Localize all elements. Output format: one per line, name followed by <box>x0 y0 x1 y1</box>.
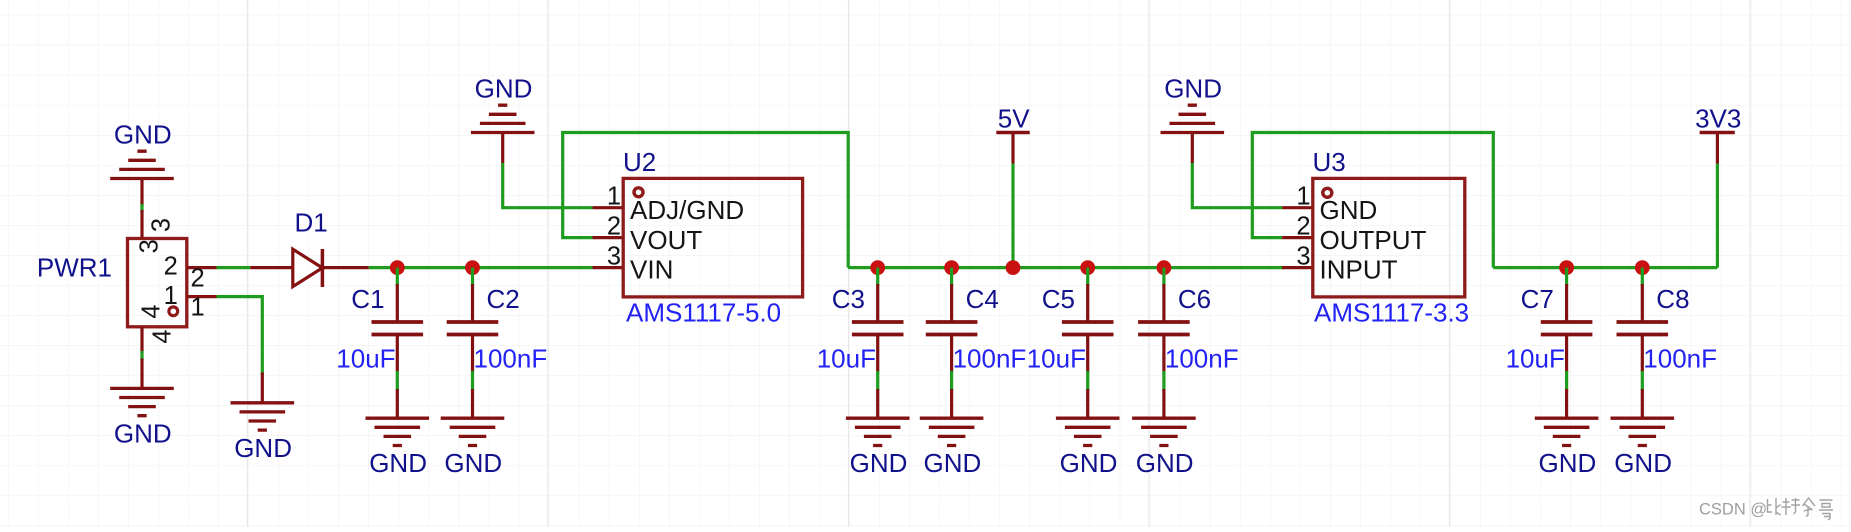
svg-text:1: 1 <box>1296 183 1310 211</box>
svg-text:3: 3 <box>1296 242 1310 270</box>
svg-text:2: 2 <box>1296 212 1310 240</box>
svg-text:GND: GND <box>924 448 982 478</box>
svg-text:10uF: 10uF <box>1506 344 1565 374</box>
pin-1 marker circle of U2 <box>634 188 643 197</box>
ground GND net flag above PWR1 <box>110 120 174 179</box>
capacitor C1 <box>396 284 399 322</box>
svg-text:C1: C1 <box>351 284 384 314</box>
svg-text:3: 3 <box>148 218 176 232</box>
wire C3 top pin to rail <box>876 268 879 286</box>
wire C7 bottom pin to ground <box>1565 371 1568 391</box>
wire PWR1 pin 1 to ground <box>217 297 263 375</box>
wire C2 top pin to rail <box>471 268 474 286</box>
junction node at C3 <box>870 260 885 275</box>
svg-text:2: 2 <box>607 212 621 240</box>
svg-text:GND: GND <box>475 74 533 104</box>
svg-text:100nF: 100nF <box>1165 344 1239 374</box>
svg-text:3: 3 <box>607 242 621 270</box>
wire PWR1 pin 4 to ground <box>140 351 143 360</box>
svg-text:GND: GND <box>1320 195 1378 225</box>
regulator U2 pin 3 <box>593 266 624 269</box>
svg-text:4: 4 <box>138 304 166 318</box>
ground below C4 <box>950 389 953 418</box>
svg-text:1: 1 <box>191 294 205 322</box>
junction node at C5 <box>1080 260 1095 275</box>
svg-text:GND: GND <box>850 448 908 478</box>
regulator U3 pin 3 <box>1282 266 1313 269</box>
svg-text:OUTPUT: OUTPUT <box>1320 225 1427 255</box>
wire 3V3 rail <box>1493 266 1717 269</box>
svg-text:D1: D1 <box>295 208 328 238</box>
wire GND to PWR1 pin 3 <box>140 179 143 207</box>
capacitor C4 <box>950 284 953 322</box>
wire 5V rail <box>848 266 1284 269</box>
wire PWR1 pin 2 to D1 anode <box>217 266 251 269</box>
svg-text:1: 1 <box>607 183 621 211</box>
ground below C5 <box>1086 389 1089 418</box>
svg-text:AMS1117-3.3: AMS1117-3.3 <box>1314 298 1469 328</box>
svg-text:C6: C6 <box>1178 284 1211 314</box>
ground below C3 <box>876 389 879 418</box>
ground GND net flag above U2 <box>471 74 535 133</box>
connector PWR1 pin 2 <box>187 266 217 269</box>
svg-text:GND: GND <box>1164 74 1222 104</box>
wire GND to U2 pin 1 <box>501 133 504 164</box>
wire D1 cathode to U2 VIN <box>369 266 593 269</box>
svg-text:GND: GND <box>114 418 172 448</box>
svg-text:U3: U3 <box>1313 147 1346 177</box>
svg-text:1: 1 <box>164 282 178 310</box>
junction node at C6 <box>1157 260 1172 275</box>
ground below C6 <box>1162 389 1165 418</box>
connector PWR1 pin 1 <box>187 295 217 298</box>
capacitor C7 <box>1565 284 1568 322</box>
regulator U3 pin 2 <box>1282 236 1313 239</box>
junction node at C1 <box>390 260 405 275</box>
wire C8 bottom pin to ground <box>1641 371 1644 391</box>
svg-text:10uF: 10uF <box>1027 344 1086 374</box>
capacitor C2 <box>471 284 474 322</box>
svg-text:5V: 5V <box>998 104 1030 134</box>
ground at PWR1 pin 1 <box>261 373 264 403</box>
svg-text:GND: GND <box>369 448 427 478</box>
wire C1 bottom pin to ground <box>396 371 399 391</box>
power net flag 5V <box>996 104 1030 164</box>
capacitor C3 <box>876 284 879 322</box>
watermark CSDN @比特冬哥 <box>1699 498 1833 520</box>
capacitor C8 <box>1641 284 1644 322</box>
junction node at 5V tap <box>1006 260 1021 275</box>
wire C4 top pin to rail <box>950 268 953 286</box>
svg-text:GND: GND <box>1060 448 1118 478</box>
svg-text:GND: GND <box>234 433 292 463</box>
wire U3 OUTPUT pin 2 up to 3V3 rail <box>1252 133 1493 268</box>
svg-text:C2: C2 <box>487 284 520 314</box>
wire rail up to 3V3 flag <box>1716 164 1719 268</box>
svg-text:4: 4 <box>149 329 177 343</box>
svg-text:100nF: 100nF <box>474 344 548 374</box>
svg-text:VIN: VIN <box>630 255 673 285</box>
svg-text:U2: U2 <box>623 147 656 177</box>
svg-text:100nF: 100nF <box>1643 344 1717 374</box>
wire C7 top pin to rail <box>1565 268 1568 286</box>
svg-text:ADJ/GND: ADJ/GND <box>630 195 744 225</box>
svg-text:C8: C8 <box>1656 284 1689 314</box>
wire C1 top pin to rail <box>396 268 399 286</box>
capacitor C5 <box>1086 284 1089 322</box>
svg-text:C4: C4 <box>966 284 999 314</box>
wire GND to U3 pin 1 <box>1191 133 1194 164</box>
svg-text:VOUT: VOUT <box>630 225 702 255</box>
connector PWR1 pin 3 <box>140 210 143 239</box>
svg-text:INPUT: INPUT <box>1320 255 1398 285</box>
pin-1 marker circle of PWR1 <box>169 307 178 316</box>
pin-1 marker circle of U3 <box>1323 188 1332 197</box>
svg-text:3: 3 <box>136 239 164 253</box>
capacitor C6 <box>1162 284 1165 322</box>
power net flag 3V3 <box>1695 104 1741 164</box>
svg-text:CSDN @: CSDN @ <box>1699 501 1767 519</box>
svg-text:AMS1117-5.0: AMS1117-5.0 <box>626 298 781 328</box>
connector PWR1 body <box>128 239 187 327</box>
svg-text:GND: GND <box>114 120 172 150</box>
svg-text:GND: GND <box>1539 448 1597 478</box>
junction node at C8 <box>1635 260 1650 275</box>
diode D1 <box>250 249 368 287</box>
svg-text:3V3: 3V3 <box>1695 104 1741 134</box>
svg-text:10uF: 10uF <box>817 344 876 374</box>
wire C4 bottom pin to ground <box>950 371 953 391</box>
junction node at C7 <box>1559 260 1574 275</box>
wire 5V flag to rail <box>1011 164 1014 268</box>
svg-text:C3: C3 <box>832 284 865 314</box>
svg-text:2: 2 <box>164 253 178 281</box>
wire C2 bottom pin to ground <box>471 371 474 391</box>
ground at PWR1 pin 4 <box>140 359 143 389</box>
wire C6 bottom pin to ground <box>1162 371 1165 391</box>
regulator U2 pin 1 <box>593 206 624 209</box>
ground below C7 <box>1565 389 1568 418</box>
svg-text:GND: GND <box>1136 448 1194 478</box>
svg-text:PWR1: PWR1 <box>37 253 112 283</box>
ground below C2 <box>471 389 474 418</box>
svg-text:C5: C5 <box>1042 284 1075 314</box>
junction node at C4 <box>944 260 959 275</box>
wire C6 top pin to rail <box>1162 268 1165 286</box>
svg-text:GND: GND <box>444 448 502 478</box>
ground below C1 <box>396 389 399 418</box>
connector PWR1 pin 4 <box>140 327 143 353</box>
wire C5 bottom pin to ground <box>1086 371 1089 391</box>
regulator U2 pin 2 <box>593 236 624 239</box>
wire C3 bottom pin to ground <box>876 371 879 391</box>
svg-text:C7: C7 <box>1521 284 1554 314</box>
ground GND net flag above U3 <box>1161 74 1225 133</box>
svg-text:GND: GND <box>1614 448 1672 478</box>
regulator U2 body <box>623 178 802 297</box>
svg-text:2: 2 <box>191 265 205 293</box>
ground below C8 <box>1641 389 1644 418</box>
wire U2 VOUT pin 2 up to 5V rail <box>563 133 849 268</box>
svg-text:100nF: 100nF <box>953 344 1027 374</box>
regulator U3 pin 1 <box>1282 206 1313 209</box>
wire C5 top pin to rail <box>1086 268 1089 286</box>
svg-text:10uF: 10uF <box>336 344 395 374</box>
junction node at C2 <box>465 260 480 275</box>
regulator U3 body <box>1313 178 1465 297</box>
wire C8 top pin to rail <box>1641 268 1644 286</box>
